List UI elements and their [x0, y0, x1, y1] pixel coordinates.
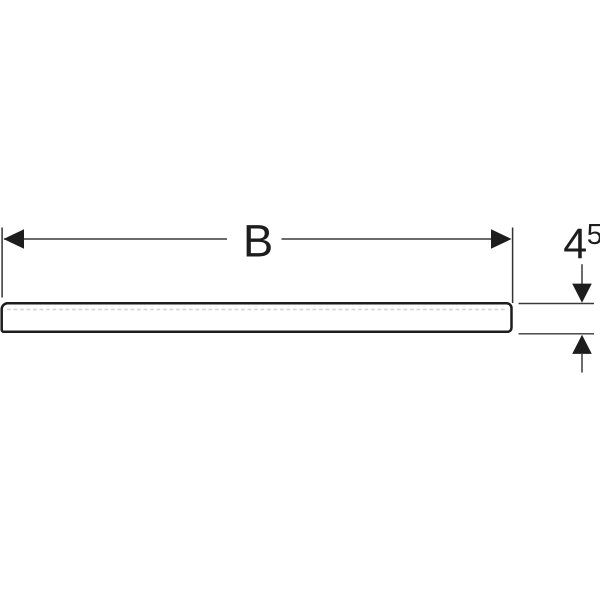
arrowhead right of dimension B [491, 229, 512, 249]
height dimension lower stem [581, 353, 583, 373]
bottom reference line (tray bottom level) [519, 333, 595, 335]
svg-text:5: 5 [587, 219, 600, 251]
inner dashed contour line of tray [7, 309, 506, 311]
shower tray side profile [2, 303, 512, 332]
wire: left extension line [1, 228, 3, 298]
arrowhead left of dimension B [4, 229, 25, 249]
top reference line (tray top level) [519, 303, 595, 305]
wire: right extension line [512, 228, 514, 304]
svg-text:B: B [243, 216, 273, 267]
arrowhead down (to tray top) [572, 284, 592, 303]
svg-text:4: 4 [563, 220, 587, 268]
height dimension upper stem [581, 264, 583, 284]
arrowhead up (to tray bottom) [572, 335, 592, 354]
dimension line B, right segment [282, 238, 511, 240]
dimension line B, left segment [4, 238, 227, 240]
